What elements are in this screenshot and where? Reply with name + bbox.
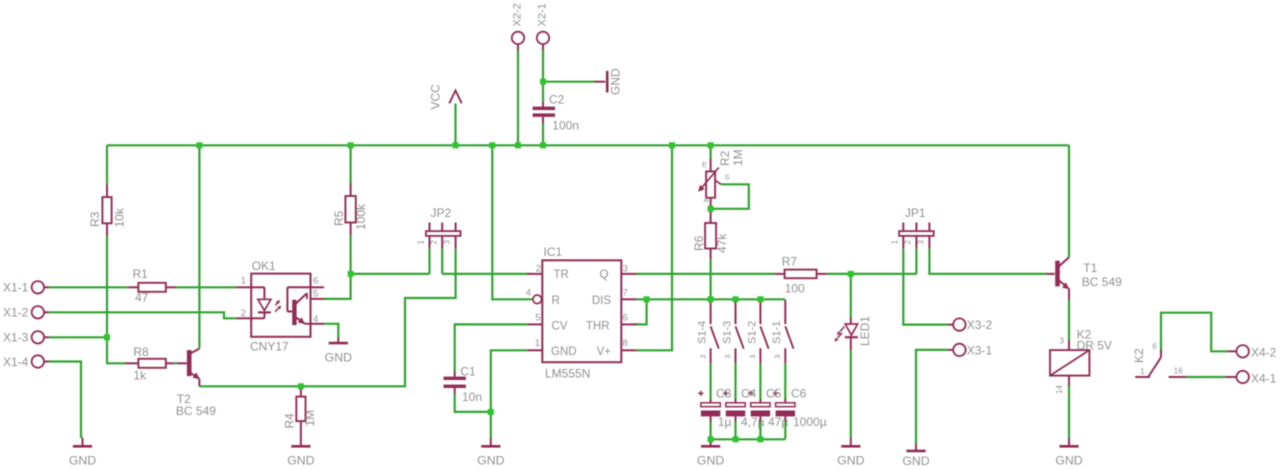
svg-text:X4-1: X4-1 [1251,371,1277,385]
svg-text:4,7µ: 4,7µ [741,415,765,429]
svg-text:1k: 1k [133,369,147,383]
svg-text:X1-2: X1-2 [3,306,29,320]
svg-text:X2-1: X2-1 [537,3,549,26]
svg-text:10k: 10k [113,207,127,227]
svg-text:THR: THR [586,321,610,333]
svg-text:1µ: 1µ [718,415,732,429]
svg-text:TR: TR [554,269,569,281]
svg-text:R1: R1 [133,267,149,281]
svg-text:3: 3 [917,240,926,245]
svg-text:CNY17: CNY17 [250,340,289,354]
svg-text:A: A [704,196,709,205]
svg-text:47: 47 [135,291,149,305]
svg-text:C6: C6 [791,386,807,400]
svg-text:GND: GND [551,346,577,358]
svg-text:6: 6 [623,313,628,324]
svg-text:R7: R7 [782,255,798,269]
svg-text:S1-2: S1-2 [746,321,758,344]
svg-text:K2: K2 [1132,348,1146,363]
svg-text:T1: T1 [1083,261,1097,275]
svg-text:GND: GND [837,454,864,468]
svg-text:R5: R5 [332,210,346,226]
svg-text:1: 1 [1140,367,1145,376]
svg-text:5: 5 [535,313,540,324]
svg-text:GND: GND [287,454,314,468]
svg-text:LED1: LED1 [858,316,872,346]
svg-text:7: 7 [623,288,628,299]
svg-text:V+: V+ [597,346,612,358]
svg-text:3: 3 [748,355,757,359]
svg-text:CV: CV [552,321,568,333]
svg-text:3: 3 [723,355,732,359]
svg-text:S: S [725,173,730,182]
svg-text:E: E [702,160,707,169]
svg-text:S1-3: S1-3 [721,321,733,344]
svg-text:C4: C4 [741,386,757,400]
svg-text:GND: GND [609,68,623,95]
svg-text:JP2: JP2 [431,206,452,220]
svg-text:6: 6 [1152,342,1157,351]
svg-text:Q: Q [600,269,609,281]
svg-text:1M: 1M [731,149,745,166]
svg-text:3: 3 [443,240,452,245]
svg-text:X1-3: X1-3 [3,331,29,345]
svg-text:GND: GND [325,351,352,365]
svg-text:X3-2: X3-2 [967,318,993,332]
svg-text:2: 2 [241,308,246,319]
svg-text:GND: GND [1055,454,1082,468]
svg-text:X4-2: X4-2 [1251,346,1277,360]
svg-text:3: 3 [623,264,628,275]
svg-text:4: 4 [313,314,318,325]
svg-text:C1: C1 [460,365,476,379]
svg-text:1M: 1M [303,410,317,427]
svg-text:S1-4: S1-4 [697,321,709,344]
svg-text:GND: GND [477,454,504,468]
svg-text:2: 2 [536,264,541,275]
svg-text:LM555N: LM555N [545,367,590,381]
svg-text:VCC: VCC [429,84,443,110]
svg-text:R4: R4 [283,413,297,429]
svg-text:2: 2 [904,240,913,245]
svg-text:3: 3 [1060,337,1065,346]
svg-text:3: 3 [698,355,707,359]
svg-text:DR 5V: DR 5V [1077,339,1112,353]
svg-text:100: 100 [785,281,805,295]
svg-text:BC 549: BC 549 [1082,275,1122,289]
svg-text:1: 1 [241,276,246,287]
svg-text:GND: GND [69,454,96,468]
svg-text:JP1: JP1 [905,206,926,220]
svg-text:C5: C5 [766,386,782,400]
svg-text:C2: C2 [549,93,565,107]
svg-text:47k: 47k [715,233,729,253]
svg-text:2: 2 [429,240,438,245]
svg-text:R3: R3 [88,211,102,227]
svg-text:6: 6 [313,276,318,287]
svg-text:DIS: DIS [592,295,612,307]
svg-text:X1-4: X1-4 [3,355,29,369]
svg-text:R2: R2 [718,150,732,166]
svg-text:OK1: OK1 [252,259,276,273]
svg-text:GND: GND [902,454,929,468]
svg-text:GND: GND [697,454,724,468]
svg-text:1: 1 [417,240,426,245]
svg-text:R6: R6 [692,235,706,251]
svg-text:10n: 10n [462,390,482,404]
svg-text:BC 549: BC 549 [176,404,216,418]
svg-text:R: R [552,295,560,307]
svg-text:8: 8 [623,338,628,349]
svg-text:1: 1 [890,240,899,245]
svg-text:14: 14 [1055,385,1064,394]
svg-text:100n: 100n [552,119,579,133]
svg-text:1: 1 [535,338,540,349]
svg-text:X3-1: X3-1 [967,343,993,357]
svg-text:R8: R8 [133,345,149,359]
svg-text:4: 4 [526,288,531,299]
svg-text:X1-1: X1-1 [3,281,29,295]
svg-text:100k: 100k [354,203,368,230]
svg-text:16: 16 [1174,367,1183,376]
svg-text:5: 5 [313,288,318,299]
svg-text:IC1: IC1 [544,245,563,259]
svg-text:X2-2: X2-2 [512,3,524,26]
svg-text:S1-1: S1-1 [771,321,783,344]
svg-text:47µ: 47µ [768,415,788,429]
svg-text:3: 3 [773,355,782,359]
svg-text:1000µ: 1000µ [793,415,827,429]
svg-text:C3: C3 [716,386,732,400]
